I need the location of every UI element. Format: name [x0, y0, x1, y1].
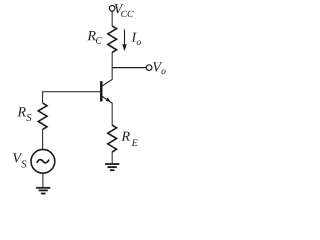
label Io: [131, 33, 140, 45]
node VCC terminal: [109, 6, 115, 12]
label VCC: [114, 4, 133, 17]
wire output tap: [112, 67, 147, 69]
wire VCC to RC: [111, 11, 113, 26]
transistor Q1 collector lead: [102, 79, 112, 86]
ground for RE: [105, 163, 119, 171]
label Vo: [153, 62, 165, 74]
resistor RS: [38, 103, 47, 129]
ground for VS: [36, 187, 50, 195]
wire base: [42, 91, 100, 93]
resistor RE: [108, 125, 117, 152]
node Vo terminal: [146, 65, 152, 71]
wire RC to collector node: [111, 52, 113, 79]
label RE: [121, 132, 137, 146]
wire source to ground: [42, 173, 44, 187]
wire RE to ground: [111, 152, 113, 163]
source VS circle: [31, 149, 55, 173]
resistor RC: [108, 26, 117, 52]
wire emitter to RE: [111, 103, 113, 126]
current arrow Io: [122, 30, 127, 52]
wire RS to source: [42, 129, 44, 149]
label RS: [17, 107, 31, 121]
transistor Q1 emitter arrowhead: [106, 98, 112, 103]
transistor Q1 base bar: [100, 81, 103, 101]
transistor Q1 emitter lead: [102, 96, 112, 103]
wire left branch down to RS: [42, 91, 44, 103]
label RC: [87, 31, 101, 44]
label VS: [13, 153, 26, 167]
source VS sine symbol: [37, 160, 49, 163]
